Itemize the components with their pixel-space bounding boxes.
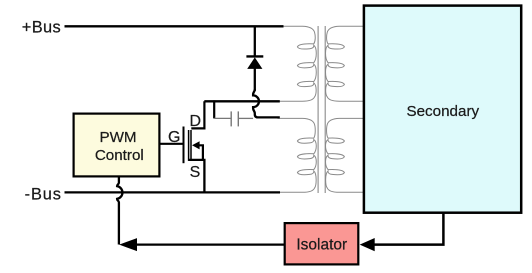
- svg-text:PWM: PWM: [99, 129, 136, 146]
- svg-text:-Bus: -Bus: [25, 185, 62, 203]
- svg-text:D: D: [190, 113, 202, 130]
- svg-text:+Bus: +Bus: [22, 18, 61, 36]
- svg-text:Control: Control: [95, 147, 144, 164]
- svg-text:G: G: [168, 129, 180, 146]
- svg-text:Secondary: Secondary: [406, 103, 479, 120]
- svg-text:S: S: [190, 164, 201, 181]
- svg-text:Isolator: Isolator: [296, 237, 347, 254]
